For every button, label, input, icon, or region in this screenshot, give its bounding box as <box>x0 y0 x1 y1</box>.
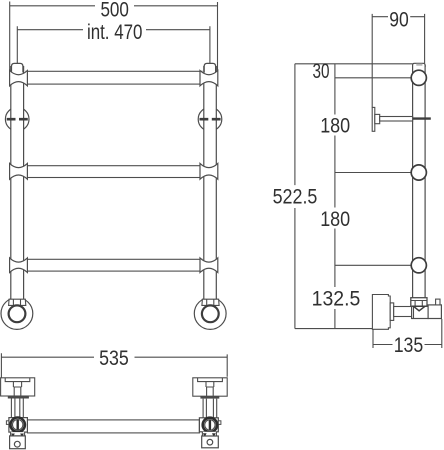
bar3 end circle <box>411 258 426 273</box>
wall mount circle right <box>198 107 222 131</box>
clamp wedge left b <box>20 434 24 438</box>
towel bar 1 <box>26 71 202 84</box>
extension line bottom <box>295 328 373 330</box>
bottom view rail bar <box>27 420 199 433</box>
dome cap right post <box>204 63 215 72</box>
bar2 end circle <box>411 165 426 180</box>
extension line bar3 center <box>335 264 413 266</box>
extension line top of rail <box>295 63 413 65</box>
svg-text:522.5: 522.5 <box>273 186 318 209</box>
stem rods right <box>203 399 217 418</box>
wall mount circle left <box>5 107 29 131</box>
wall bracket arm tip through post <box>413 117 431 119</box>
dimension int. 470 <box>17 26 210 63</box>
clamp wedge right a <box>203 433 207 437</box>
floor mount inner circle left <box>9 305 26 322</box>
towel bar 3 <box>26 259 202 271</box>
clamp neck left <box>11 432 25 436</box>
cone fitting <box>414 306 426 311</box>
outlet block top square <box>436 299 440 305</box>
left post body <box>11 66 24 299</box>
flange left <box>8 396 29 399</box>
bar1 end circle <box>411 70 426 85</box>
base plate left <box>10 436 26 449</box>
svg-text:180: 180 <box>320 115 350 138</box>
side view post <box>413 65 426 298</box>
centerline dashes wall mount left <box>7 118 28 121</box>
bottom view wall bracket left <box>1 378 35 396</box>
wall bracket plate side view <box>372 107 375 131</box>
extension line bar1 center <box>335 77 413 79</box>
collar joint bar3 left <box>10 258 28 273</box>
floor ferrule right <box>202 299 219 305</box>
side view post cap <box>413 63 426 67</box>
cap highlight <box>416 64 422 66</box>
stem rods left <box>11 399 23 418</box>
screw ring right <box>203 418 217 432</box>
bottom view wall bracket right <box>193 378 227 396</box>
floor ferrule left <box>9 299 26 305</box>
collar joint bar3 right <box>200 258 218 273</box>
svg-text:90: 90 <box>389 8 409 31</box>
right post body <box>204 66 217 299</box>
valve knob side view <box>372 295 390 330</box>
floor mount big circle left <box>1 298 33 330</box>
floor mount inner circle right <box>202 305 219 322</box>
floor mount big circle right <box>194 298 226 330</box>
flange right <box>200 396 219 398</box>
valve body <box>412 306 429 318</box>
collar joint bar1 right <box>200 71 218 86</box>
dimension 522.5 overall height line <box>294 64 296 329</box>
screw ring left <box>11 418 25 432</box>
svg-text:30: 30 <box>313 60 330 83</box>
collar joint bar1 left <box>10 71 28 86</box>
dimension 90 side view <box>372 14 424 108</box>
clamp wedge right b <box>212 433 216 437</box>
extension line bar2 center <box>335 172 413 174</box>
dimension 135 <box>373 319 442 348</box>
base plate right <box>202 436 219 448</box>
valve knob flange <box>390 303 394 321</box>
compression nut <box>411 298 427 307</box>
svg-text:180: 180 <box>320 208 350 231</box>
svg-text:135: 135 <box>394 334 424 357</box>
wall bracket arm <box>380 117 413 122</box>
dimension chain line 30/180/180/132.5 <box>334 64 336 329</box>
centerline dashes wall mount right <box>200 118 221 121</box>
valve outlet block <box>428 305 441 319</box>
dimension 535 bottom view <box>1 353 227 378</box>
collar joint bar2 left <box>10 163 28 179</box>
valve block right outlet step <box>218 421 221 425</box>
clamp neck right <box>202 432 216 436</box>
wall bracket boss <box>375 114 380 123</box>
svg-text:535: 535 <box>99 347 129 370</box>
valve block right <box>199 418 218 432</box>
towel bar 2 <box>26 166 202 178</box>
dome cap left post <box>12 63 23 72</box>
valve block left outlet step <box>6 421 8 425</box>
clamp wedge left a <box>11 434 15 438</box>
base plate hole right <box>207 439 213 445</box>
dimension 500 front view <box>10 2 218 71</box>
svg-text:132.5: 132.5 <box>312 288 361 311</box>
base plate hole left <box>14 441 20 447</box>
collar joint bar2 right <box>200 163 218 179</box>
valve spindle <box>394 307 412 317</box>
valve block left <box>9 418 28 433</box>
svg-text:int. 470: int. 470 <box>87 21 143 44</box>
svg-text:500: 500 <box>100 0 129 21</box>
